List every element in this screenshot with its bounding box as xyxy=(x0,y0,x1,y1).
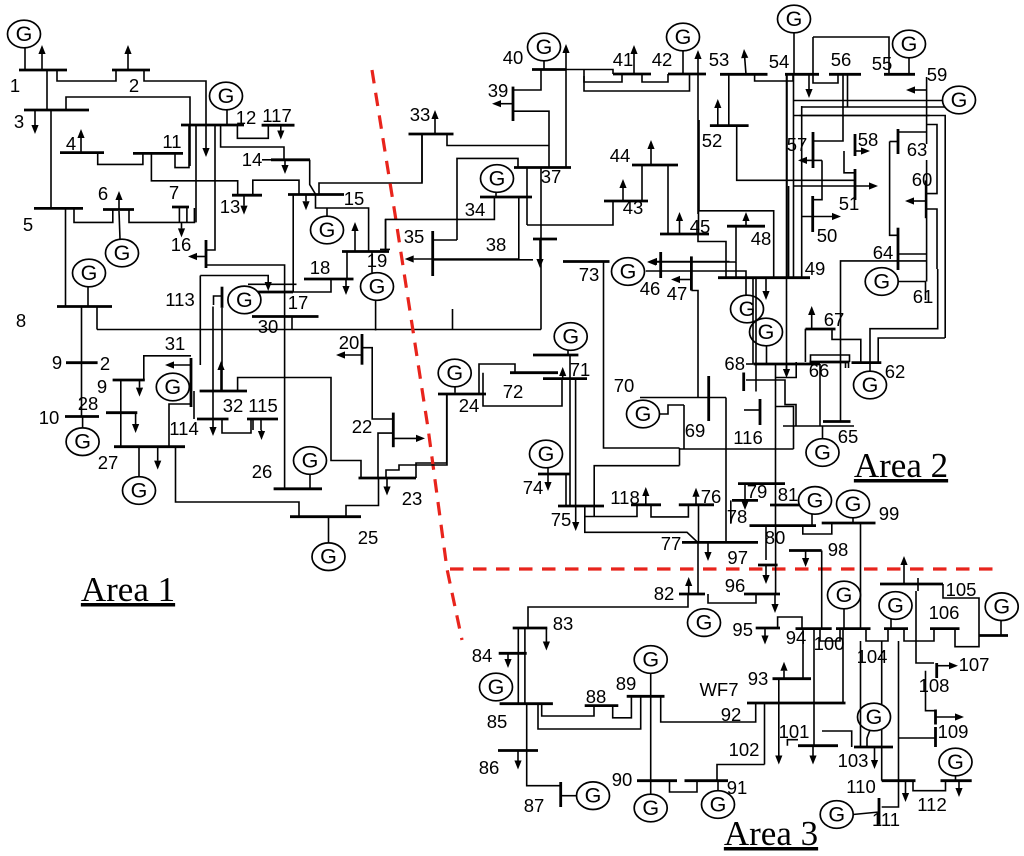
svg-text:41: 41 xyxy=(613,49,634,70)
generator at bus 100 xyxy=(843,609,845,629)
bus 20 xyxy=(361,334,364,365)
bus 33 xyxy=(409,133,454,136)
load arrow bus 75 xyxy=(575,506,577,523)
label tick 14 xyxy=(262,159,271,161)
bus 42 xyxy=(668,73,706,76)
svg-text:5: 5 xyxy=(23,214,33,235)
generator at bus 96 xyxy=(688,609,721,637)
load arrow bus 117 xyxy=(280,125,282,130)
bus 87 xyxy=(559,782,562,807)
svg-text:117: 117 xyxy=(262,105,292,126)
load arrow bus 98 xyxy=(805,551,807,559)
wire 15-19 xyxy=(316,195,369,252)
svg-text:G: G xyxy=(710,793,727,817)
wire 30 riser xyxy=(291,317,293,330)
bus 99 xyxy=(822,522,876,525)
wire 77-82 xyxy=(697,542,699,593)
svg-text:74: 74 xyxy=(523,477,544,498)
wire 50-51 col c xyxy=(793,74,795,277)
bus 43 xyxy=(604,200,648,203)
wire 100-104 link xyxy=(866,629,888,641)
wire 14-15 xyxy=(310,160,316,195)
tie arrow into bus 20 xyxy=(345,354,362,356)
load arrow bus 41 xyxy=(633,54,635,74)
wire 54-49 long xyxy=(786,74,788,277)
gen arrow bus 52 xyxy=(717,108,719,126)
wire 22-23 xyxy=(378,433,393,478)
load arrow bus 43 xyxy=(622,188,624,201)
svg-text:50: 50 xyxy=(817,225,838,246)
generator at bus 99a xyxy=(852,518,854,523)
wire 6-7 xyxy=(129,208,194,222)
wire 42-45 xyxy=(698,211,700,234)
load arrow bus 28 xyxy=(135,413,137,424)
wire 49 col d xyxy=(801,106,803,278)
svg-text:G: G xyxy=(74,430,91,454)
bus 14 xyxy=(271,158,310,161)
bus 17 xyxy=(252,291,293,294)
generator at bus 104 xyxy=(890,619,892,629)
bus 113 xyxy=(221,287,224,308)
generator at bus 65 xyxy=(822,426,824,439)
generator at bus 55 xyxy=(908,58,910,74)
load arrow bus 13 xyxy=(243,195,245,205)
tick bus 105 xyxy=(917,578,919,591)
bus 32 xyxy=(200,390,247,393)
svg-text:32: 32 xyxy=(223,395,244,416)
wire 31-27 xyxy=(169,404,191,447)
wire 31-9 xyxy=(144,356,191,380)
wire G113-17 xyxy=(248,283,297,285)
svg-text:47: 47 xyxy=(667,283,688,304)
wire 91-102 xyxy=(717,765,765,781)
wire 57 path xyxy=(813,160,822,199)
wire 85-88 link xyxy=(542,704,594,716)
wire 18-19 xyxy=(346,252,348,280)
wire 98-100 drop xyxy=(821,551,823,629)
svg-text:43: 43 xyxy=(623,197,644,218)
svg-text:G: G xyxy=(873,270,890,294)
svg-text:G: G xyxy=(319,218,336,242)
wire 47 drop xyxy=(691,291,698,398)
svg-text:97: 97 xyxy=(727,547,748,568)
bus 94 xyxy=(796,627,832,630)
wire 63-64 box2 xyxy=(890,142,898,236)
area boundary 1-2 dashed line xyxy=(372,70,462,640)
svg-text:99: 99 xyxy=(879,503,900,524)
wire 106-107 link xyxy=(955,629,979,647)
wire 44-45 xyxy=(667,165,669,234)
bus 7 xyxy=(172,206,189,209)
svg-text:105: 105 xyxy=(946,579,977,600)
svg-text:68: 68 xyxy=(724,353,745,374)
wire 12-117 link xyxy=(237,125,268,138)
load arrow bus 92 xyxy=(778,679,780,756)
load arrow bus 97 xyxy=(765,565,767,575)
load arrow bus 95 xyxy=(764,628,766,636)
gen arrow bus 93 xyxy=(783,671,785,679)
bus 98 xyxy=(789,549,822,552)
svg-text:86: 86 xyxy=(479,757,500,778)
svg-text:90: 90 xyxy=(612,769,633,790)
wire 41-42 link xyxy=(642,74,668,82)
generator at bus 113 xyxy=(228,286,261,314)
bus 69 xyxy=(707,376,710,421)
tie arrow into bus 31 xyxy=(174,364,191,366)
wire 113-32-114 xyxy=(212,307,214,420)
wire 8-9-10 xyxy=(81,307,83,417)
wire 39-37 xyxy=(513,111,549,167)
load arrow bus 76 xyxy=(695,497,697,505)
wire 85-86-87 xyxy=(527,704,561,786)
wire 15-17 xyxy=(292,195,294,293)
svg-text:G: G xyxy=(488,675,505,699)
svg-text:65: 65 xyxy=(838,426,859,447)
wire 61-62 b xyxy=(878,338,945,363)
svg-text:108: 108 xyxy=(919,675,950,696)
wire 12-14 xyxy=(221,125,284,160)
wire 39-40 xyxy=(513,70,541,91)
wire 59-60 box xyxy=(926,125,937,194)
svg-text:2: 2 xyxy=(100,353,110,374)
tie arrow into bus 46 xyxy=(656,261,736,263)
wire 50-51 col b xyxy=(788,186,790,278)
svg-text:100: 100 xyxy=(814,633,845,654)
bus 49 xyxy=(718,276,810,279)
wire 52-53 xyxy=(728,74,730,125)
load arrow bus 45 xyxy=(679,221,681,234)
load arrow bus 115 xyxy=(261,430,263,431)
load arrow bus 6 xyxy=(118,200,120,210)
generator at bus 54 xyxy=(793,33,795,74)
wire 69-77 xyxy=(725,398,727,543)
svg-text:81: 81 xyxy=(778,484,799,505)
svg-text:9: 9 xyxy=(52,352,62,373)
bus 2 xyxy=(112,69,150,72)
wire 40-41 straight xyxy=(566,70,613,75)
load arrow bus 48 xyxy=(745,221,747,226)
svg-text:G: G xyxy=(164,375,181,399)
generator at bus 15 xyxy=(326,209,328,217)
wire 2-12 xyxy=(144,70,206,125)
tap bus 7 a xyxy=(178,207,180,222)
bus 12 xyxy=(181,124,244,127)
arrow right near 58 xyxy=(794,185,869,187)
wire 54-56 link xyxy=(813,74,838,83)
arrow into 47 xyxy=(680,279,691,281)
load arrow bus 44 xyxy=(650,149,652,165)
wire 56 drop b xyxy=(847,74,849,107)
svg-text:46: 46 xyxy=(640,278,661,299)
load arrow bus 83 xyxy=(545,628,547,642)
bus 63 xyxy=(897,129,900,154)
svg-text:115: 115 xyxy=(248,395,278,416)
arrow 72-71 xyxy=(562,376,564,379)
load arrow bus 14 xyxy=(284,160,286,165)
svg-text:20: 20 xyxy=(339,332,360,353)
tie arrow into bus 73 xyxy=(657,261,730,263)
wire 9-28-27 xyxy=(120,380,122,447)
bus 24 xyxy=(438,393,486,396)
load arrow bus 7 xyxy=(181,222,183,228)
bus 60 line xyxy=(925,180,927,218)
wire 70-75-69 xyxy=(680,448,794,450)
bus 38 xyxy=(533,238,557,241)
svg-text:64: 64 xyxy=(873,242,894,263)
bus 45 xyxy=(660,233,709,236)
generator at bus 12 xyxy=(226,110,228,125)
generator at bus 8 xyxy=(87,287,89,307)
svg-text:18: 18 xyxy=(310,257,331,278)
wire 40-42 long xyxy=(584,74,690,91)
bus 40 xyxy=(532,68,566,71)
bus 77 xyxy=(682,541,758,544)
generator at bus 40 xyxy=(543,61,545,70)
svg-text:G: G xyxy=(489,167,506,191)
svg-text:4: 4 xyxy=(66,133,76,154)
svg-text:10: 10 xyxy=(39,407,60,428)
wire 109-110 xyxy=(899,737,936,739)
wire 23-24 xyxy=(416,394,447,478)
tap bus 115 b xyxy=(260,419,262,430)
wire 71-75 col b xyxy=(575,379,577,506)
bus 9 xyxy=(113,379,145,382)
bus 39 xyxy=(512,87,515,121)
wire 94-92 drop xyxy=(813,629,815,746)
svg-text:24: 24 xyxy=(459,395,480,416)
wire 90-91 link xyxy=(670,781,698,792)
generator at bus 74 xyxy=(547,468,549,474)
load arrow bus 9 xyxy=(139,380,141,388)
wire 35-37 box xyxy=(457,158,518,240)
bus 6 xyxy=(103,208,134,211)
bus 114 xyxy=(197,418,229,421)
load arrow bus 19 xyxy=(354,231,356,252)
svg-text:76: 76 xyxy=(701,486,722,507)
svg-text:G: G xyxy=(814,441,831,465)
wire 113 left drop xyxy=(199,276,201,366)
generator at bus 71 xyxy=(567,350,569,355)
svg-text:19: 19 xyxy=(367,250,388,271)
wire 17-18 xyxy=(293,279,331,292)
svg-text:28: 28 xyxy=(78,393,99,414)
load arrow bus 118 xyxy=(645,496,647,505)
bus 118 xyxy=(631,503,661,506)
bus 54 xyxy=(785,73,819,76)
wire 92-102 drop xyxy=(764,703,766,765)
bus 66 xyxy=(810,361,850,364)
wire 1-3 xyxy=(46,70,48,110)
svg-text:Area 3: Area 3 xyxy=(724,814,818,853)
svg-text:39: 39 xyxy=(488,80,509,101)
gen arrow bus 32 xyxy=(220,370,222,391)
box left xyxy=(812,37,814,74)
svg-text:G: G xyxy=(758,320,775,344)
bus 19 xyxy=(342,250,389,253)
bus 62 bar xyxy=(852,361,882,364)
wire 66 link left xyxy=(811,355,850,362)
svg-text:G: G xyxy=(236,288,253,312)
wire 53-54 link xyxy=(755,74,793,81)
generator at bus 31 xyxy=(189,386,191,388)
bus 101 xyxy=(798,744,838,747)
bus 41 xyxy=(613,73,651,76)
svg-text:57: 57 xyxy=(787,134,808,155)
wire 82-96 link xyxy=(708,594,756,603)
svg-text:112: 112 xyxy=(917,794,947,815)
svg-text:37: 37 xyxy=(541,166,562,187)
wire 105-106 xyxy=(943,584,979,636)
tap bus 78 xyxy=(730,500,732,523)
generator at bus 87 xyxy=(561,795,577,797)
load arrow bus 33 xyxy=(434,119,436,134)
svg-text:102: 102 xyxy=(729,739,760,760)
wire 104-106 link xyxy=(904,629,934,641)
svg-text:G: G xyxy=(696,611,713,635)
wire 61-62 a xyxy=(870,269,938,363)
wire 75-118 link xyxy=(585,505,637,517)
wire long h2 xyxy=(794,116,946,339)
wire 5-8 xyxy=(65,208,67,306)
wire 70 rise xyxy=(679,448,681,466)
bus 31 xyxy=(190,358,193,407)
svg-text:75: 75 xyxy=(551,509,572,530)
arrow into bus 17 xyxy=(267,281,269,282)
svg-text:56: 56 xyxy=(831,49,852,70)
svg-text:G: G xyxy=(828,803,845,827)
bus 111 xyxy=(878,798,881,825)
bus 16 xyxy=(205,240,208,268)
svg-text:G: G xyxy=(320,545,337,569)
generator at bus 59 xyxy=(794,100,943,102)
wire 80-99 link xyxy=(803,523,832,534)
tie arrow from 57 xyxy=(807,159,822,161)
load arrow bus 103 xyxy=(874,747,876,760)
load arrow bus 112 xyxy=(958,781,960,788)
bus 5 xyxy=(34,207,83,210)
svg-text:78: 78 xyxy=(727,506,748,527)
wire 66-67 a xyxy=(804,329,806,362)
svg-text:34: 34 xyxy=(465,199,486,220)
arrow 96-95 xyxy=(774,594,776,604)
svg-text:98: 98 xyxy=(828,539,849,560)
wire 20-22 xyxy=(362,348,393,419)
svg-text:62: 62 xyxy=(885,361,906,382)
svg-text:72: 72 xyxy=(503,381,524,402)
generator near bus 49 b xyxy=(766,346,768,364)
svg-text:51: 51 xyxy=(839,193,860,214)
generator at bus 24 xyxy=(454,387,456,393)
bus 89 xyxy=(627,695,665,698)
svg-text:G: G xyxy=(845,492,862,516)
bus 106 xyxy=(930,627,960,630)
wire 64-59 xyxy=(898,253,927,255)
svg-text:2: 2 xyxy=(129,75,139,96)
svg-text:101: 101 xyxy=(779,721,810,742)
wire 35 tick xyxy=(380,248,390,250)
load arrow bus 68 xyxy=(786,364,788,369)
bus 67 xyxy=(806,328,836,331)
bus 68 xyxy=(754,363,820,366)
tie arrow 60 xyxy=(914,200,926,202)
svg-text:89: 89 xyxy=(616,673,637,694)
bus 34 xyxy=(480,196,532,199)
svg-text:6: 6 xyxy=(98,183,108,204)
wire 33-37 xyxy=(447,134,549,146)
wire 99-100 drop xyxy=(860,523,862,629)
bus 30 xyxy=(252,315,319,318)
svg-text:13: 13 xyxy=(220,196,241,217)
svg-text:60: 60 xyxy=(912,169,933,190)
wire 68-69 line xyxy=(640,397,726,399)
bus 71 xyxy=(533,354,578,357)
wire 83-85 b xyxy=(524,628,526,704)
bus 28 xyxy=(106,411,137,414)
wire 42-49 riser xyxy=(698,120,700,211)
svg-text:15: 15 xyxy=(344,188,365,209)
wire 113 hook xyxy=(214,296,223,305)
bus 82 xyxy=(679,593,705,596)
load arrow bus 53 xyxy=(745,58,746,74)
load arrow bus 77 xyxy=(707,542,709,552)
wire 16-26 riser xyxy=(206,265,285,489)
svg-text:G: G xyxy=(635,402,652,426)
svg-text:22: 22 xyxy=(352,416,373,437)
svg-text:G: G xyxy=(675,25,692,49)
wire 19-34 riser xyxy=(385,219,387,252)
bus 115 xyxy=(247,418,278,421)
svg-text:G: G xyxy=(836,583,853,607)
bus 107 tick xyxy=(935,663,938,678)
svg-text:G: G xyxy=(642,796,659,820)
generator at bus 103 xyxy=(867,730,870,747)
wire G61-61 xyxy=(898,282,926,301)
svg-text:G: G xyxy=(369,275,386,299)
bus 62 lower bar xyxy=(823,420,851,423)
load arrow bus 114 xyxy=(212,419,214,427)
svg-text:113: 113 xyxy=(165,289,195,310)
bus 25 xyxy=(290,515,361,518)
bus 83 xyxy=(513,627,548,630)
wire 37-43 drop xyxy=(526,168,528,226)
svg-text:42: 42 xyxy=(652,49,673,70)
wire 105-108 drop xyxy=(916,591,934,663)
svg-text:G: G xyxy=(585,784,602,808)
bus 56 xyxy=(829,73,861,76)
bus 35 xyxy=(431,231,434,276)
tie arrow into bus 39 xyxy=(501,103,513,105)
wire 113-32 xyxy=(221,308,223,391)
bus 8 xyxy=(57,305,112,308)
svg-text:54: 54 xyxy=(769,51,790,72)
load arrow bus 79 xyxy=(744,484,746,501)
generator at bus 61 xyxy=(865,268,898,296)
svg-text:52: 52 xyxy=(702,130,723,151)
wire 110-112 link xyxy=(913,781,946,791)
bus 110 xyxy=(882,779,916,782)
load arrow bus 2 xyxy=(127,54,129,70)
svg-text:Area 1: Area 1 xyxy=(81,570,175,609)
svg-text:G: G xyxy=(302,449,319,473)
arrow into 109 xyxy=(936,716,956,718)
bus 46 xyxy=(659,252,662,278)
svg-text:G: G xyxy=(131,479,148,503)
svg-text:70: 70 xyxy=(614,375,635,396)
load arrow bus 15 xyxy=(305,195,307,202)
svg-text:G: G xyxy=(81,261,98,285)
svg-text:59: 59 xyxy=(927,64,948,85)
wire 89-90 xyxy=(650,696,652,780)
